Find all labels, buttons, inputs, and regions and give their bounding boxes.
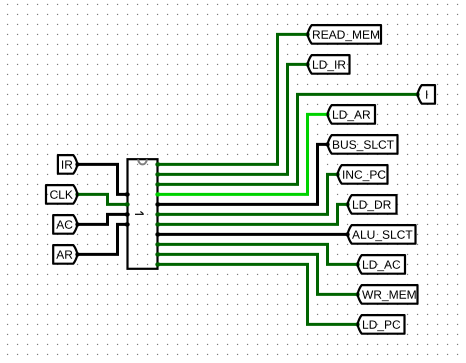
tunnel READ_MEM <box>308 25 382 44</box>
tunnel CLK <box>46 185 78 204</box>
tunnel WR_MEM <box>358 285 418 304</box>
tunnel IR <box>58 155 78 174</box>
tunnel ALU_SLCT <box>348 225 416 244</box>
subcircuit control unit block U1 <box>128 159 158 269</box>
wire WR_MEM net <box>155 252 359 296</box>
wire ALU_SLCT bus <box>155 232 349 236</box>
tunnel I <box>418 85 436 104</box>
wire BUS_SLCT bus <box>155 142 329 206</box>
wire CLK <box>75 192 129 206</box>
wire I net <box>155 92 419 186</box>
tunnel BUS_SLCT <box>328 135 398 154</box>
wire LD_AR net (logic high) <box>155 112 329 196</box>
block port connection dots <box>125 162 161 266</box>
pin label 1 (rotated) <box>135 212 144 215</box>
wire LD_AC net <box>155 242 359 266</box>
wire READ_MEM net <box>155 32 309 166</box>
wire LD_IR net <box>155 62 309 176</box>
wire IR bus <box>75 162 129 196</box>
tunnel INC_PC <box>338 165 388 184</box>
tunnel LD_IR <box>308 55 350 74</box>
tunnel LD_AC <box>358 255 406 274</box>
wire AR bus <box>75 222 129 256</box>
wire INC_PC net <box>155 172 339 216</box>
tunnel AR <box>53 245 77 264</box>
wire LD_PC net <box>155 262 359 326</box>
wire LD_DR net <box>155 202 349 226</box>
subcircuit orientation notch <box>138 159 147 164</box>
tunnel AC <box>53 215 77 234</box>
tunnel LD_AR <box>328 105 376 124</box>
wire AC bus <box>75 212 129 226</box>
tunnel LD_DR <box>348 195 397 214</box>
tunnel LD_PC <box>358 315 405 334</box>
